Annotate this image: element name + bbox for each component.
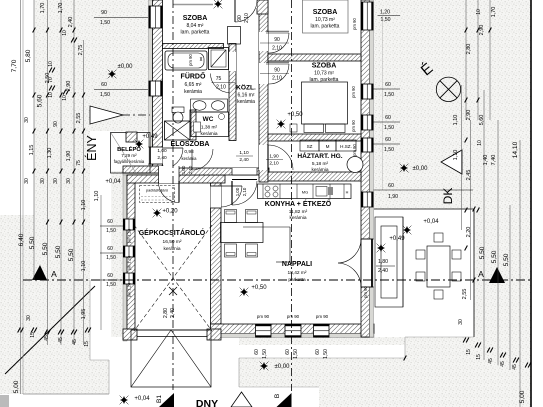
svg-text:1,80: 1,80 <box>378 259 388 265</box>
svg-text:60: 60 <box>285 349 291 355</box>
svg-text:1,10: 1,10 <box>94 191 100 202</box>
eloszoba-garage door opening <box>159 166 180 183</box>
wall haztart/konyha <box>268 172 361 181</box>
svg-text:5,50: 5,50 <box>29 236 36 249</box>
svg-text:+0,04: +0,04 <box>423 219 439 225</box>
svg-text:pm 90: pm 90 <box>363 286 368 298</box>
shaft x-box <box>165 121 191 140</box>
svg-text:90: 90 <box>53 121 59 127</box>
wall furdo/kozl vertical <box>229 44 236 141</box>
svg-text:2,10: 2,10 <box>272 76 282 82</box>
svg-text:1,50: 1,50 <box>384 147 394 153</box>
svg-text:1,10: 1,10 <box>453 150 459 161</box>
furniture edge szoba1 <box>173 4 213 6</box>
wardrobe szoba1 <box>228 27 241 45</box>
DNY triangle marker <box>231 392 252 407</box>
svg-text:2,10: 2,10 <box>269 161 279 167</box>
wardrobe m <box>319 140 336 151</box>
wall garage right / kitchen <box>211 183 222 324</box>
wall garage bottom stubs <box>123 329 137 340</box>
svg-text:1,38 m²: 1,38 m² <box>201 125 218 131</box>
svg-text:60: 60 <box>385 82 391 88</box>
svg-text:GÉPKOCSITÁROLÓ: GÉPKOCSITÁROLÓ <box>139 228 206 237</box>
svg-text:30: 30 <box>24 178 30 184</box>
svg-text:2,80: 2,80 <box>466 44 472 55</box>
right dim ticks <box>465 28 468 33</box>
eloszoba-konyha door opening <box>232 168 257 175</box>
wall right exterior <box>361 0 370 337</box>
svg-text:5,50: 5,50 <box>42 242 49 255</box>
svg-text:+0,04: +0,04 <box>105 179 121 185</box>
svg-text:1,00: 1,00 <box>235 187 240 196</box>
svg-text:10: 10 <box>62 30 68 36</box>
svg-text:5,00: 5,00 <box>519 390 526 403</box>
section marker A left <box>32 265 47 280</box>
toilet furdo <box>172 107 184 113</box>
room label wc <box>191 112 229 137</box>
eloszoba-konyha door leaf <box>231 181 233 205</box>
svg-text:90: 90 <box>237 15 243 21</box>
svg-text:1,10: 1,10 <box>81 200 87 211</box>
svg-text:75: 75 <box>76 160 82 166</box>
svg-text:1,95: 1,95 <box>81 309 87 320</box>
level +0.04 bottom-left <box>120 396 128 404</box>
svg-text:H.SZ.: H.SZ. <box>340 144 352 149</box>
garage-kitchen door opening <box>211 186 222 208</box>
svg-text:±0,00: ±0,00 <box>275 364 291 370</box>
svg-text:2,20: 2,20 <box>466 227 472 238</box>
kozl-szoba2 door opening <box>259 32 268 51</box>
sink kitchen <box>316 187 327 197</box>
wall elo/garage horizontal <box>123 166 163 173</box>
wall eloszoba bottom <box>163 168 270 175</box>
svg-text:1,10: 1,10 <box>81 261 87 272</box>
svg-text:60: 60 <box>107 246 113 252</box>
svg-text:7,70: 7,70 <box>11 59 18 72</box>
svg-text:1,90: 1,90 <box>269 154 279 160</box>
terrace table <box>427 246 450 287</box>
french door leaves <box>338 239 361 263</box>
svg-text:60: 60 <box>388 183 394 189</box>
level +-0.00 bottom <box>260 362 268 370</box>
level +0.50 szoba3 <box>277 120 285 128</box>
svg-text:15: 15 <box>476 354 482 360</box>
belepo ramp diagonal <box>111 133 136 173</box>
svg-text:1,30: 1,30 <box>47 148 53 159</box>
level +0.20 garage <box>153 209 161 217</box>
left dim chain lines <box>20 0 22 394</box>
level +0.50 nappali <box>240 288 248 296</box>
svg-text:18,42 m²: 18,42 m² <box>288 270 307 276</box>
section marker A right <box>489 267 505 283</box>
sparkle top <box>214 0 222 8</box>
svg-text:1,50: 1,50 <box>384 92 394 98</box>
plot boundary diagonal bottom-left <box>5 286 95 374</box>
svg-text:10: 10 <box>48 61 54 67</box>
window bottom 3 <box>314 324 330 338</box>
svg-text:kerámia: kerámia <box>182 156 198 161</box>
svg-text:2,40: 2,40 <box>170 308 176 318</box>
svg-text:5,60: 5,60 <box>37 94 44 107</box>
svg-text:B1: B1 <box>156 395 163 403</box>
window bottom 2 <box>285 324 301 338</box>
svg-text:2,45: 2,45 <box>466 170 472 181</box>
washbasin counter <box>191 99 228 112</box>
canopy gable lines <box>131 330 171 387</box>
svg-text:1,20: 1,20 <box>380 10 390 16</box>
svg-text:1,50: 1,50 <box>106 282 116 288</box>
svg-text:5,50: 5,50 <box>68 248 75 261</box>
svg-text:2,80: 2,80 <box>163 308 169 318</box>
svg-text:60: 60 <box>385 115 391 121</box>
level +0.49 terrace <box>377 244 385 252</box>
washbasin 2 <box>212 101 225 111</box>
svg-text:+0,49: +0,49 <box>142 134 158 140</box>
svg-text:SZOBA: SZOBA <box>312 63 337 70</box>
level +-0.00 right <box>400 164 408 172</box>
svg-text:KÖZL.: KÖZL. <box>236 83 256 92</box>
svg-text:A: A <box>51 269 57 279</box>
level +-0.00 left <box>108 70 116 78</box>
svg-text:SZ: SZ <box>307 144 313 149</box>
svg-text:5,18 m²: 5,18 m² <box>312 161 329 167</box>
section marker B <box>277 393 292 407</box>
svg-text:pm 90: pm 90 <box>352 18 357 30</box>
svg-text:kerámia: kerámia <box>163 246 180 252</box>
svg-text:ÉNY: ÉNY <box>84 134 99 160</box>
svg-text:2,40: 2,40 <box>68 17 74 28</box>
section line B1 vertical <box>172 0 174 390</box>
chairs <box>225 210 237 223</box>
kitchen counter <box>258 184 352 199</box>
svg-text:15: 15 <box>84 341 90 347</box>
svg-text:5,80: 5,80 <box>25 49 32 62</box>
svg-text:10: 10 <box>477 140 483 146</box>
svg-text:30: 30 <box>66 178 72 184</box>
garage door opening <box>137 329 207 331</box>
svg-text:padlásfeljáró: padlásfeljáró <box>146 188 168 193</box>
svg-text:70: 70 <box>48 77 54 83</box>
svg-text:lam. parketta: lam. parketta <box>181 30 210 36</box>
wall garage top <box>123 171 225 175</box>
bathtub <box>165 51 207 70</box>
svg-text:1,90: 1,90 <box>66 151 72 162</box>
window 60/150 right b <box>361 115 374 130</box>
svg-text:MG: MG <box>302 190 308 195</box>
svg-text:30: 30 <box>24 117 30 123</box>
wc left wall <box>190 110 196 140</box>
wc door leaf+arc <box>191 149 193 170</box>
svg-text:1,50: 1,50 <box>106 255 116 261</box>
svg-text:5,50: 5,50 <box>491 250 498 263</box>
svg-text:75: 75 <box>216 76 222 82</box>
svg-text:10,73 m²: 10,73 m² <box>314 71 334 77</box>
svg-text:±0,00: ±0,00 <box>413 166 429 172</box>
svg-text:B: B <box>274 394 281 398</box>
wall left exterior main house: insulation strip + hatch <box>149 0 153 172</box>
svg-text:BELÉPŐ: BELÉPŐ <box>117 145 141 153</box>
section marker B1 <box>159 393 174 407</box>
svg-text:+0,50: +0,50 <box>251 285 267 291</box>
svg-text:pm 1,20: pm 1,20 <box>127 228 132 243</box>
garage window 2 <box>123 246 135 257</box>
svg-text:M: M <box>326 144 330 149</box>
shower <box>209 48 229 70</box>
svg-text:KONYHA + ÉTKEZŐ: KONYHA + ÉTKEZŐ <box>265 199 332 208</box>
svg-text:8,04 m²: 8,04 m² <box>187 23 204 29</box>
garage window 1 <box>123 219 135 230</box>
wall szoba3/haztart <box>268 134 361 141</box>
padlasfeljaro dashed box <box>140 186 175 203</box>
nightstand szoba3 <box>290 124 297 132</box>
svg-text:5,50: 5,50 <box>479 246 486 259</box>
furdo door arc <box>211 74 230 93</box>
svg-text:+0,04: +0,04 <box>134 396 150 402</box>
svg-text:90: 90 <box>274 68 280 74</box>
kozl-szoba2 door leaf <box>266 30 289 32</box>
kozl-haztart door <box>259 145 268 170</box>
wall szoba1/furdo <box>163 44 224 49</box>
svg-text:10: 10 <box>476 9 482 15</box>
right dim chain lines <box>465 0 467 120</box>
svg-text:1,00: 1,00 <box>157 148 167 154</box>
svg-text:15: 15 <box>30 332 36 338</box>
svg-text:30: 30 <box>40 178 46 184</box>
svg-text:pm 90: pm 90 <box>287 314 300 319</box>
kozl-szoba3 door <box>259 63 268 84</box>
level +0.49 belepo <box>135 140 143 148</box>
svg-text:45: 45 <box>58 337 64 343</box>
window 90/150 left wall <box>149 6 163 28</box>
top wall pier <box>257 0 268 14</box>
belepo porch outline <box>111 133 151 174</box>
gray block bottom-left <box>0 395 9 407</box>
plot boundary right <box>530 0 532 407</box>
szoba1 door leaf <box>234 0 236 22</box>
svg-text:15: 15 <box>466 349 472 355</box>
svg-text:6,16 m²: 6,16 m² <box>238 93 255 99</box>
svg-text:10: 10 <box>62 95 68 101</box>
bed szoba3 <box>302 82 348 124</box>
svg-text:HÁZTART. HG.: HÁZTART. HG. <box>297 151 342 160</box>
svg-text:90: 90 <box>101 10 107 16</box>
wc toilet <box>194 122 201 132</box>
svg-text:7,40: 7,40 <box>491 155 497 166</box>
compass E <box>436 77 460 101</box>
svg-text:pm 90: pm 90 <box>257 314 270 319</box>
french door opening right <box>361 239 374 287</box>
ENY triangle marker <box>90 106 123 124</box>
window 60/150 right c <box>361 138 374 152</box>
svg-text:7,29 m²: 7,29 m² <box>121 153 137 158</box>
stove burners <box>265 186 270 191</box>
svg-text:A: A <box>478 269 484 279</box>
wall kozl right vertical <box>259 0 268 182</box>
svg-text:1,00: 1,00 <box>181 165 186 174</box>
svg-text:5,60: 5,60 <box>479 115 485 126</box>
wall szoba2/szoba3 <box>268 54 361 61</box>
svg-text:2,55: 2,55 <box>462 289 468 300</box>
front door opening <box>149 147 163 164</box>
canopy outline <box>131 330 211 387</box>
svg-text:5,50: 5,50 <box>503 253 510 266</box>
svg-text:pm 1,20: pm 1,20 <box>127 255 132 270</box>
svg-text:60: 60 <box>315 349 321 355</box>
front door leaf+arc <box>163 147 184 149</box>
svg-text:DNY: DNY <box>196 398 218 407</box>
svg-text:2,10: 2,10 <box>272 46 282 52</box>
svg-text:WC: WC <box>203 116 214 123</box>
svg-text:0,98: 0,98 <box>184 149 194 155</box>
svg-text:30: 30 <box>458 319 464 325</box>
svg-text:kerámia: kerámia <box>311 167 328 173</box>
svg-text:+0,49: +0,49 <box>389 236 405 242</box>
svg-text:1,50: 1,50 <box>100 92 110 98</box>
svg-text:6,40: 6,40 <box>18 233 25 246</box>
svg-text:45: 45 <box>500 361 506 367</box>
svg-text:pm 90: pm 90 <box>351 86 356 98</box>
svg-text:1,70: 1,70 <box>58 3 64 14</box>
window 60/190 right d <box>361 192 374 207</box>
svg-text:5,00: 5,00 <box>13 380 20 393</box>
window 60/150 right a <box>361 84 374 99</box>
svg-text:1,40: 1,40 <box>483 155 489 166</box>
svg-text:1,50: 1,50 <box>384 125 394 131</box>
svg-text:FÜRDŐ: FÜRDŐ <box>181 72 206 81</box>
site ground stipple <box>34 0 531 345</box>
boiler circle <box>347 157 363 173</box>
wall garage left exterior <box>123 171 127 341</box>
belepo pier <box>126 132 137 142</box>
site edges <box>22 0 24 394</box>
svg-text:5,50: 5,50 <box>55 245 62 258</box>
svg-text:1,50: 1,50 <box>100 20 110 26</box>
svg-text:60: 60 <box>101 82 107 88</box>
window 60/150 left wall <box>149 81 163 96</box>
svg-text:10,73 m²: 10,73 m² <box>315 17 335 23</box>
svg-text:1,70: 1,70 <box>40 3 46 14</box>
section line B vertical <box>291 0 293 391</box>
kitchen zone corner brackets <box>243 226 290 228</box>
ENY direction line <box>90 114 150 116</box>
svg-text:14,10: 14,10 <box>512 141 519 158</box>
svg-text:pm 90: pm 90 <box>188 54 193 66</box>
svg-text:1,50: 1,50 <box>106 228 116 234</box>
svg-text:2,10: 2,10 <box>216 85 226 91</box>
room label szoba2 <box>303 0 349 33</box>
svg-text:60: 60 <box>107 273 113 279</box>
svg-text:2,55: 2,55 <box>76 113 82 124</box>
svg-text:30: 30 <box>53 178 59 184</box>
garage dashed X <box>134 225 212 331</box>
wardrobe hsz <box>336 140 356 151</box>
svg-text:SZOBA: SZOBA <box>313 9 338 16</box>
svg-text:kerámia: kerámia <box>184 89 202 95</box>
svg-text:fagyálló kerámia: fagyálló kerámia <box>114 159 145 164</box>
wardrobe sz <box>300 140 319 151</box>
wall bottom main house <box>211 324 375 334</box>
svg-text:2,90: 2,90 <box>466 110 472 121</box>
garage window 3 <box>123 273 135 284</box>
svg-text:lam. parketta: lam. parketta <box>311 24 340 30</box>
svg-text:pm 90: pm 90 <box>352 144 357 156</box>
svg-text:kerámia: kerámia <box>237 99 255 105</box>
terrace steps nested rects <box>375 217 403 307</box>
dining table <box>221 223 264 243</box>
svg-text:45: 45 <box>44 335 50 341</box>
svg-text:pm 90: pm 90 <box>316 314 329 319</box>
window 120/150 right <box>361 2 374 30</box>
svg-text:1,50: 1,50 <box>380 17 390 23</box>
terrace boundary <box>374 208 474 210</box>
garage center x mark <box>169 287 177 295</box>
svg-text:1,90: 1,90 <box>388 194 398 200</box>
svg-text:H: H <box>346 191 349 195</box>
svg-text:2,75: 2,75 <box>78 45 84 56</box>
svg-text:1,10: 1,10 <box>239 150 249 156</box>
svg-text:±0,00: ±0,00 <box>118 64 134 70</box>
washbasin 1 <box>193 101 206 111</box>
svg-text:60: 60 <box>254 349 260 355</box>
left dim ticks <box>33 28 36 33</box>
svg-text:2,10: 2,10 <box>244 13 250 23</box>
section line A-A horizontal <box>23 279 531 281</box>
svg-text:2,40: 2,40 <box>378 268 388 274</box>
svg-text:1,50: 1,50 <box>293 349 299 359</box>
terrace chairs <box>416 250 425 259</box>
furdo door opening <box>229 52 236 71</box>
svg-text:kerámia: kerámia <box>289 215 306 221</box>
svg-text:60: 60 <box>385 137 391 143</box>
level +0.04 terrace <box>403 226 411 234</box>
svg-text:+0,50: +0,50 <box>287 112 303 118</box>
svg-text:1,15: 1,15 <box>29 145 35 156</box>
svg-text:6,65 m²: 6,65 m² <box>185 82 202 88</box>
svg-text:pm 1,20: pm 1,20 <box>127 282 132 297</box>
svg-text:1,70: 1,70 <box>491 7 497 18</box>
svg-text:30: 30 <box>26 315 32 321</box>
window bottom 1 <box>256 324 272 338</box>
svg-text:pm 90: pm 90 <box>351 120 356 132</box>
white cutouts <box>148 0 374 337</box>
svg-text:60: 60 <box>107 219 113 225</box>
svg-text:+0,20: +0,20 <box>162 209 178 215</box>
svg-text:16,50 m²: 16,50 m² <box>163 239 182 245</box>
svg-text:kerámia: kerámia <box>200 131 217 137</box>
svg-text:2,40: 2,40 <box>157 155 167 161</box>
svg-text:SZOBA: SZOBA <box>183 15 208 22</box>
szoba1 top door opening <box>234 0 257 8</box>
svg-text:2,40: 2,40 <box>239 157 249 163</box>
eloszoba-garage door leaf <box>178 181 180 203</box>
svg-text:1,50: 1,50 <box>323 349 329 359</box>
garage-kitchen door leaf <box>221 185 242 187</box>
svg-text:45: 45 <box>512 364 518 370</box>
svg-text:2,10: 2,10 <box>242 187 247 196</box>
svg-text:45: 45 <box>72 339 78 345</box>
svg-text:2,90: 2,90 <box>479 25 485 36</box>
svg-text:45: 45 <box>488 358 494 364</box>
svg-text:1,10: 1,10 <box>453 115 459 126</box>
DK triangle marker <box>441 150 462 174</box>
svg-text:1,50: 1,50 <box>262 349 268 359</box>
svg-text:90: 90 <box>274 37 280 43</box>
